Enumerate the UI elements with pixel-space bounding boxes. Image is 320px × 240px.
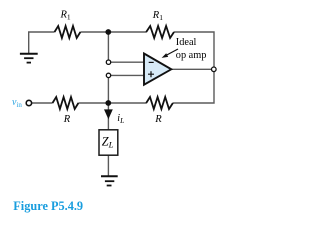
svg-text:Ideal: Ideal: [176, 37, 197, 48]
svg-text:Figure P5.4.9: Figure P5.4.9: [13, 199, 83, 213]
svg-text:R: R: [63, 114, 71, 125]
svg-text:op amp: op amp: [176, 50, 207, 61]
svg-text:R: R: [154, 114, 162, 125]
